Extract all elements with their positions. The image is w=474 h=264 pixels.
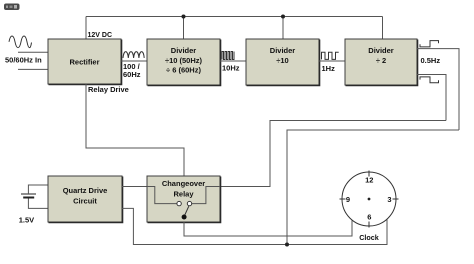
block: Quartz Drive Circuit xyxy=(48,176,123,223)
wire: quartz lower output to clock bus xyxy=(122,208,387,244)
wire: rectifier to divider1 xyxy=(121,60,147,62)
wire: mains input lower xyxy=(18,68,48,70)
wire: relay drive path xyxy=(86,84,184,176)
svg-text:6: 6 xyxy=(367,212,371,221)
signal: 1Hz square wave xyxy=(322,52,339,59)
block: Divider3 xyxy=(345,39,418,86)
center dot xyxy=(368,198,371,201)
wire: 12V DC top bus xyxy=(86,16,383,18)
tick 12 xyxy=(368,171,370,177)
svg-text:50/60Hz In: 50/60Hz In xyxy=(5,55,42,64)
wire: drop to rectifier top xyxy=(85,17,87,40)
node: junction dot bus/divider2 xyxy=(281,15,285,19)
contact A circle xyxy=(177,201,181,205)
wire: relay pole to clock left terminal xyxy=(184,221,352,237)
relay arm xyxy=(184,206,189,216)
corner badge xyxy=(4,4,20,11)
relay pole dot xyxy=(182,215,187,220)
svg-text:Quartz Drive: Quartz Drive xyxy=(63,186,108,195)
svg-text:Clock: Clock xyxy=(359,233,379,242)
wire: upper output return to clock bus xyxy=(287,130,459,245)
svg-text:Changeover: Changeover xyxy=(162,179,205,188)
svg-text:Divider: Divider xyxy=(171,46,197,55)
svg-text:÷ 2: ÷ 2 xyxy=(376,56,386,65)
signal: 10Hz dense square wave xyxy=(222,52,234,60)
tick 6 xyxy=(368,222,370,228)
wire: divider1 to divider2 xyxy=(220,60,246,62)
wire: quartz to relay contact A xyxy=(122,186,147,188)
svg-text:10Hz: 10Hz xyxy=(222,63,240,72)
wire: relay internal left xyxy=(147,187,177,204)
wire: divider3 lower output 0.5Hz xyxy=(417,75,446,121)
wire: relay internal right xyxy=(192,187,220,204)
svg-text:÷10 (50Hz): ÷10 (50Hz) xyxy=(165,56,203,65)
svg-text:Rectifier: Rectifier xyxy=(69,57,99,66)
svg-text:Relay: Relay xyxy=(173,189,194,198)
signal: 100/60Hz full-wave humps xyxy=(123,52,144,58)
signal: upper pulse symbol xyxy=(420,41,439,47)
tick 9 xyxy=(340,198,346,200)
wire: drop to divider3 top xyxy=(382,17,384,40)
wire: divider3 upper output 0.5Hz xyxy=(417,49,459,130)
wire: divider2 to divider3 xyxy=(319,60,345,62)
wire: mains input upper xyxy=(18,51,48,53)
contact B circle xyxy=(187,201,191,205)
svg-text:9: 9 xyxy=(346,195,350,204)
wire: lower output return to relay contact B xyxy=(220,121,446,187)
signal: mains sine symbol xyxy=(9,36,32,48)
block: Rectifier xyxy=(48,39,122,85)
svg-text:1Hz: 1Hz xyxy=(322,64,336,73)
wire: drop to divider2 top xyxy=(282,17,284,40)
svg-text:Relay Drive: Relay Drive xyxy=(88,85,129,94)
battery B1 1.5V xyxy=(21,185,48,208)
svg-text:12: 12 xyxy=(365,175,373,184)
svg-text:12V DC: 12V DC xyxy=(88,32,113,39)
clock M1 xyxy=(340,171,399,228)
block: Changeover Relay xyxy=(147,176,221,223)
svg-text:÷ 6 (60Hz): ÷ 6 (60Hz) xyxy=(166,66,201,75)
block: Divider2 xyxy=(246,39,320,86)
svg-text:3: 3 xyxy=(387,195,391,204)
svg-text:Circuit: Circuit xyxy=(73,196,97,205)
svg-text:Divider: Divider xyxy=(368,46,394,55)
svg-text:0.5Hz: 0.5Hz xyxy=(421,56,441,65)
tick 3 xyxy=(393,198,399,200)
node: junction dot on clock bus xyxy=(285,243,289,247)
signal: lower pulse symbol xyxy=(420,77,439,83)
svg-text:60Hz: 60Hz xyxy=(123,70,141,79)
svg-text:÷10: ÷10 xyxy=(276,56,288,65)
node: junction dot bus/divider1 xyxy=(182,15,186,19)
wire: drop to divider1 top xyxy=(183,17,185,40)
svg-text:1.5V: 1.5V xyxy=(19,216,34,225)
block: Divider1 xyxy=(147,39,221,86)
svg-text:Divider: Divider xyxy=(270,46,296,55)
